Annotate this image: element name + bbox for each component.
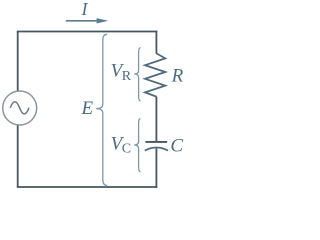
svg-text:C: C <box>170 136 183 157</box>
capacitor C bottom curved plate <box>145 148 168 151</box>
svg-text:C: C <box>122 142 131 157</box>
wire: right lower (capacitor to bottom) <box>155 149 157 188</box>
svg-text:E: E <box>81 98 94 119</box>
brace E (large) <box>96 34 107 185</box>
wire: right middle (resistor to capacitor) <box>155 96 157 141</box>
capacitor C top plate <box>145 141 167 143</box>
AC source circle <box>3 91 37 125</box>
AC source sine wave <box>10 102 29 114</box>
brace VR <box>134 48 140 101</box>
wire: top <box>17 31 158 33</box>
wire: left upper segment <box>17 32 19 92</box>
wire: bottom <box>17 186 158 188</box>
svg-text:I: I <box>81 0 89 19</box>
wire: right upper (to resistor) <box>155 31 157 54</box>
svg-text:R: R <box>122 69 132 84</box>
svg-text:R: R <box>171 65 184 86</box>
brace VC <box>134 119 140 172</box>
wire: left lower segment <box>17 125 19 187</box>
resistor R zigzag <box>145 53 165 96</box>
current arrow <box>66 20 99 22</box>
